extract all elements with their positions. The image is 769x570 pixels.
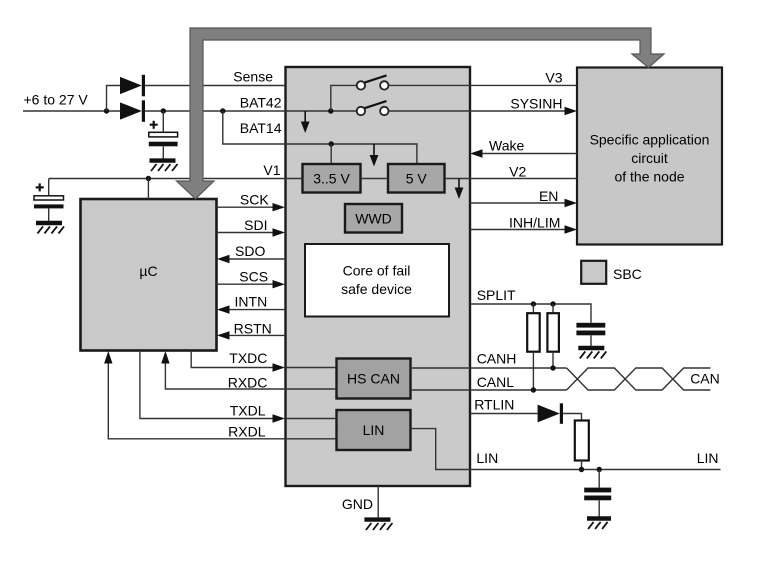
capacitor C4 top lead [598,470,600,488]
capacitor C3 (SPLIT) [576,323,605,328]
node: SPLIT junction R2 [550,301,555,306]
wire SYSINH [470,110,568,112]
internal riser to switch S1 [331,85,357,111]
wire D3 to resistor R3 [563,414,582,421]
V1 rail wire [49,178,286,180]
svg-text:µC: µC [139,263,157,279]
svg-text:5 V: 5 V [406,170,428,186]
regulator box 5 V [388,164,445,193]
HS CAN transceiver box [337,359,411,399]
svg-text:RXDC: RXDC [228,374,268,390]
diode D1 (Sense branch) [120,77,142,94]
svg-text:SCK: SCK [240,192,269,208]
svg-text:RXDL: RXDL [228,423,266,439]
wire RXDL from SBC to uC bottom [108,360,285,439]
diode D3 (RTLIN) [538,405,560,423]
wire RTLIN [470,413,538,415]
SPI wire SDI [217,232,277,234]
switch S2 [365,101,387,108]
wire V2 [470,178,577,180]
svg-text:EN: EN [539,188,558,204]
watchdog box WWD [345,204,402,233]
node: BAT14 branch junction [220,108,225,113]
capacitor C4 (LIN) [584,488,611,493]
svg-text:SDI: SDI [244,217,267,233]
capacitor C2 plus sign [36,183,44,191]
node: input junction [104,108,109,113]
capacitor C1 plus sign [150,121,158,129]
svg-text:Core of fail: Core of fail [343,262,411,278]
microcontroller uC block [81,199,217,351]
capacitor C4 lower lead [598,500,600,516]
svg-text:GND: GND [342,496,373,512]
switch S1 [365,75,387,82]
svg-text:WWD: WWD [355,210,392,226]
wire junction to 3..5V regulator [330,144,332,164]
svg-text:circuit: circuit [631,150,668,166]
internal wire TXDC to HS CAN [286,367,337,369]
svg-text:BAT42: BAT42 [240,95,282,111]
wire RSTN [226,334,286,336]
svg-text:TXDL: TXDL [230,403,266,419]
specific application circuit block [577,68,722,245]
capacitor C2 top lead [48,179,50,197]
resistor R2 [547,313,559,352]
resistor R1 lead top [532,304,534,313]
diode D2 (BAT42 branch) [120,102,142,119]
wire CANH [470,367,567,369]
resistor R1 [527,313,540,352]
capacitor C2 lower lead [48,208,50,221]
svg-text:of the node: of the node [614,169,684,185]
SPI wire SCS [217,283,277,285]
V1 wire into 3..5V box [286,178,303,180]
wire SPLIT [470,304,591,323]
internal down arrow from BAT14 [373,144,375,158]
wire V1 to uC top [147,179,149,200]
internal wire TXDL to LIN box [286,418,337,420]
resistor R2 lead top [552,304,554,313]
input supply wire +6 to 27 V [23,110,121,112]
capacitor C1 lower lead [162,146,164,158]
SBC internal: BAT42 rail [286,110,357,112]
wire EN [470,202,568,204]
svg-text:SCS: SCS [239,269,268,285]
wire RXDC from SBC to uC bottom [165,360,285,389]
wire INTN [226,309,286,311]
svg-text:BAT14: BAT14 [240,120,282,136]
wire INH/LIM [470,229,568,231]
internal wire HS CAN to CANL pin [411,389,471,391]
resistor R3 [575,421,589,461]
capacitor C2 (polarized) [34,196,64,200]
svg-text:CAN: CAN [690,371,720,387]
node: LIN junction C4 [597,467,602,472]
svg-text:INH/LIM: INH/LIM [509,214,560,230]
svg-text:Wake: Wake [489,138,524,154]
svg-text:V1: V1 [263,162,280,178]
svg-text:RTLIN: RTLIN [474,397,514,413]
svg-text:LIN: LIN [697,450,719,466]
internal down arrow from BAT42 [304,111,306,124]
ground under C1 [150,161,178,171]
internal wire LIN box to LIN pin [411,429,471,470]
resistor R1 lead bottom to CANL [532,352,534,390]
capacitor C1 lead [162,111,164,133]
node: V1 junction above uC [146,176,151,181]
regulator box 3..5 V [303,164,361,193]
SBC legend box [581,261,606,284]
svg-text:RSTN: RSTN [234,320,272,336]
node: LIN junction R3 [579,467,584,472]
svg-text:SDO: SDO [235,243,265,259]
SBC internal: BAT14 rail [286,144,417,164]
svg-text:LIN: LIN [476,450,498,466]
wire CANL [470,389,567,391]
resistor R2 lead bottom to CANH [552,352,554,368]
node: internal BAT14 junction [329,141,334,146]
node: SPLIT junction R1 [531,301,536,306]
wire between regulators [361,178,389,180]
svg-text:+6 to 27 V: +6 to 27 V [24,92,89,108]
twisted pair line B [567,368,711,390]
big gray bus arrow from node block to SBC and uC [177,28,665,199]
svg-text:LIN: LIN [363,422,385,438]
capacitor C1 (polarized) [149,132,178,137]
SBC block U1 [286,67,471,486]
wire D1 cathode to SBC Sense pin [145,85,286,87]
wire BAT14 branch [223,111,286,144]
wire TXDC from uC bottom to SBC [191,351,276,368]
svg-text:safe device: safe device [341,281,412,297]
internal wire HS CAN to CANH pin [411,367,471,369]
internal down arrow on V2 rail [458,179,460,191]
SPI wire SCK [217,206,277,208]
core of fail safe device box [305,244,449,317]
SPI wire SDO [226,258,286,260]
node: junction at capacitor C1 [161,108,166,113]
svg-text:Specific application: Specific application [590,132,710,148]
wire Wake [479,153,577,155]
internal wire RXDC to HS CAN [286,388,337,390]
svg-text:3..5 V: 3..5 V [313,170,350,186]
resistor R3 lower lead [581,461,583,470]
svg-text:V3: V3 [545,69,562,85]
svg-text:TXDC: TXDC [229,350,267,366]
wire D2 cathode to SBC BAT42 pin [145,110,286,112]
node: CANH junction R2 [550,365,555,370]
svg-text:INTN: INTN [235,294,268,310]
wire switch S1 to V3 pin [389,84,470,86]
svg-text:V2: V2 [509,164,526,180]
LIN transceiver box [337,410,411,450]
wire TXDL from uC bottom to SBC [140,351,276,419]
node: CANL junction R1 [531,387,536,392]
wire LIN bus [470,469,721,471]
wire up to Sense diode branch [107,86,121,112]
internal wire RXDL to LIN box [286,438,337,440]
ground under C3 [578,348,606,358]
svg-text:Sense: Sense [233,69,273,85]
wire 5V box to V2 pin [445,178,471,180]
svg-text:SYSINH: SYSINH [510,95,562,111]
wire V3 [470,84,577,86]
twisted pair line A [567,368,711,390]
svg-text:SBC: SBC [613,266,642,282]
svg-text:HS CAN: HS CAN [347,371,400,387]
ground under GND pin [364,520,392,530]
ground under C2 [36,223,64,233]
ground under C4 [587,519,611,529]
node: internal BAT42 junction [328,108,333,113]
GND pin wire [377,486,379,517]
svg-text:SPLIT: SPLIT [477,287,516,303]
capacitor C3 lower lead [590,335,592,346]
svg-text:CANH: CANH [477,350,517,366]
svg-text:CANL: CANL [477,374,515,390]
